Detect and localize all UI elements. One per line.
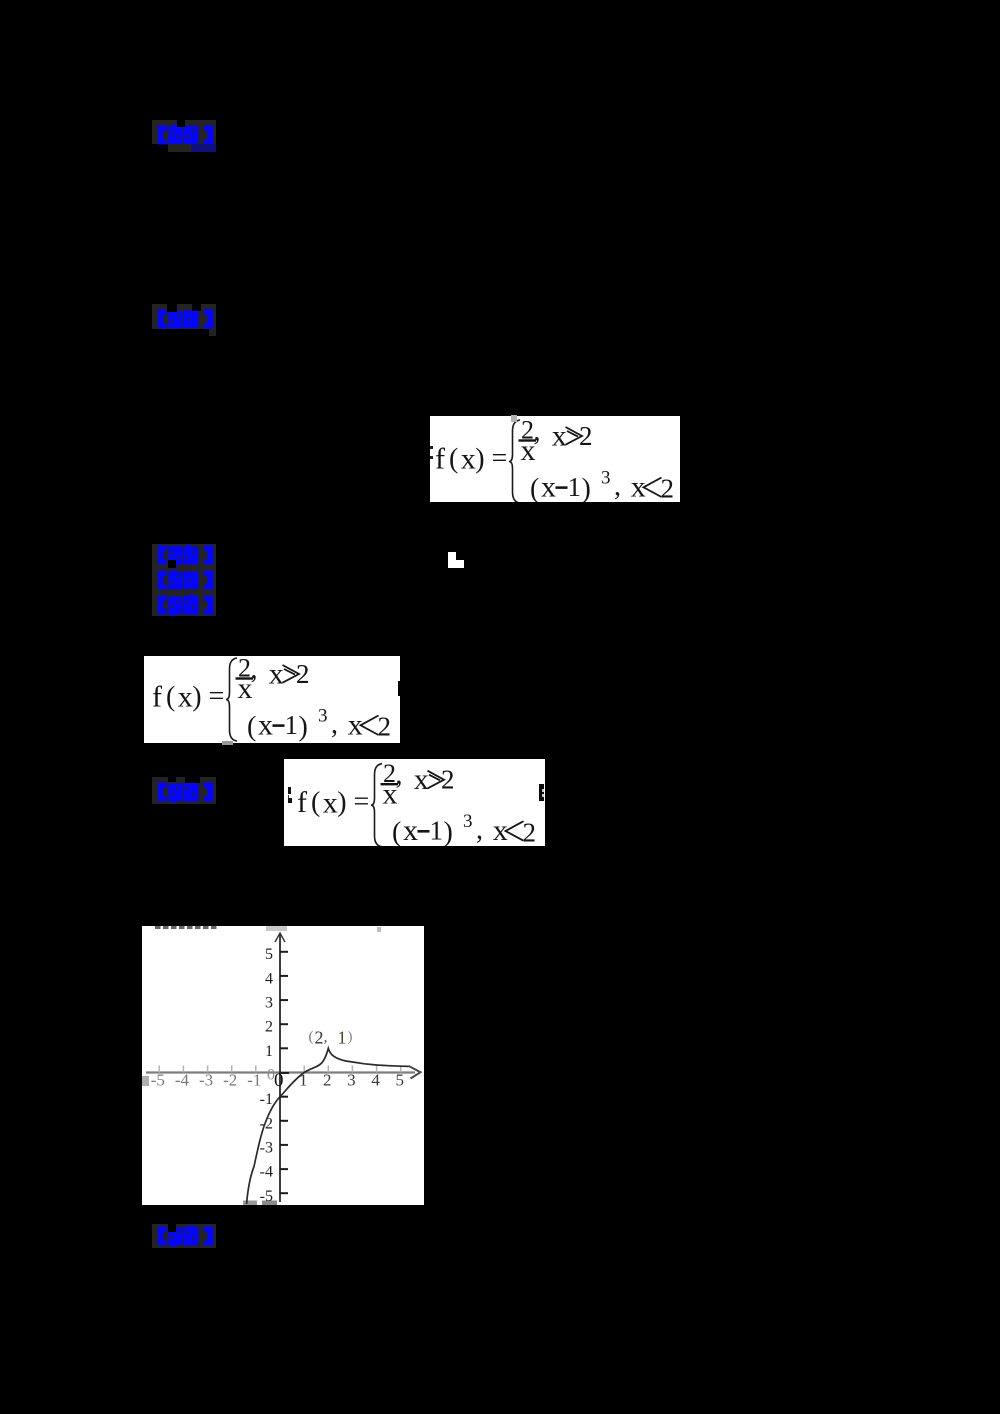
svg-text:3: 3 (463, 811, 473, 832)
svg-text:(: ( (309, 1029, 314, 1045)
svg-text:3: 3 (318, 706, 328, 727)
svg-text:-4: -4 (260, 1164, 273, 1181)
svg-text:x: x (461, 443, 476, 476)
svg-text:,: , (476, 815, 483, 846)
svg-text:3: 3 (347, 1071, 356, 1090)
svg-text:,: , (251, 656, 258, 685)
svg-text:,: , (614, 471, 621, 502)
svg-text:): ) (444, 817, 453, 846)
svg-text:2: 2 (523, 817, 537, 846)
svg-text:x: x (403, 814, 418, 846)
svg-text:(: ( (449, 444, 458, 475)
svg-text:2: 2 (441, 765, 455, 795)
svg-text:2: 2 (296, 659, 310, 689)
svg-text:=: = (209, 681, 225, 712)
svg-text:(: ( (392, 817, 401, 846)
svg-text:(: ( (530, 474, 539, 503)
svg-text:4: 4 (265, 970, 273, 987)
svg-text:,: , (534, 416, 541, 447)
svg-text:0: 0 (274, 1070, 284, 1091)
svg-text:): ) (582, 474, 591, 503)
svg-text:x: x (631, 470, 646, 502)
svg-text:,: , (331, 709, 338, 740)
svg-text:4: 4 (371, 1071, 380, 1090)
svg-text:x: x (323, 786, 338, 819)
svg-text:): ) (192, 682, 201, 713)
svg-text:-3: -3 (260, 1139, 273, 1156)
svg-text:): ) (337, 787, 346, 818)
svg-text:): ) (348, 1029, 353, 1045)
svg-text:1: 1 (265, 1043, 273, 1060)
svg-text:-1: -1 (260, 1091, 273, 1108)
svg-text:): ) (475, 444, 484, 475)
svg-text:5: 5 (265, 946, 273, 963)
svg-text:(: ( (166, 682, 175, 713)
svg-text:2: 2 (579, 421, 593, 451)
svg-text:x: x (178, 681, 193, 714)
svg-text:x: x (258, 709, 273, 742)
svg-text:x: x (541, 471, 556, 503)
svg-text:-2: -2 (260, 1115, 273, 1132)
svg-text:f: f (152, 681, 162, 714)
svg-text:3: 3 (265, 995, 273, 1012)
svg-text:-5: -5 (260, 1188, 273, 1205)
svg-text:2: 2 (661, 474, 675, 502)
svg-text:-4: -4 (175, 1071, 190, 1090)
svg-text:-2: -2 (223, 1071, 237, 1090)
svg-text:2: 2 (265, 1019, 273, 1036)
svg-text:5: 5 (396, 1071, 405, 1090)
svg-text:3: 3 (601, 468, 611, 489)
svg-text:2: 2 (323, 1071, 332, 1090)
svg-text:x: x (414, 763, 429, 796)
svg-text:-3: -3 (199, 1071, 213, 1090)
svg-text:,: , (396, 760, 403, 791)
svg-text:-5: -5 (151, 1071, 165, 1090)
svg-text:,: , (324, 1029, 328, 1046)
svg-text:x: x (269, 658, 284, 691)
svg-text:-1: -1 (247, 1071, 261, 1090)
svg-text:(: ( (311, 787, 320, 818)
svg-text:2: 2 (315, 1027, 324, 1047)
svg-text:2: 2 (378, 712, 392, 742)
svg-text:f: f (435, 443, 445, 476)
svg-text:1: 1 (338, 1028, 347, 1048)
svg-text:f: f (297, 786, 307, 819)
svg-text:x: x (552, 420, 567, 453)
svg-text:1: 1 (285, 710, 299, 740)
svg-text:=: = (354, 787, 370, 818)
svg-text:(: ( (247, 712, 256, 743)
svg-text:1: 1 (568, 472, 582, 502)
svg-text:1: 1 (430, 816, 444, 846)
svg-text:): ) (299, 712, 308, 743)
svg-text:=: = (492, 443, 508, 474)
